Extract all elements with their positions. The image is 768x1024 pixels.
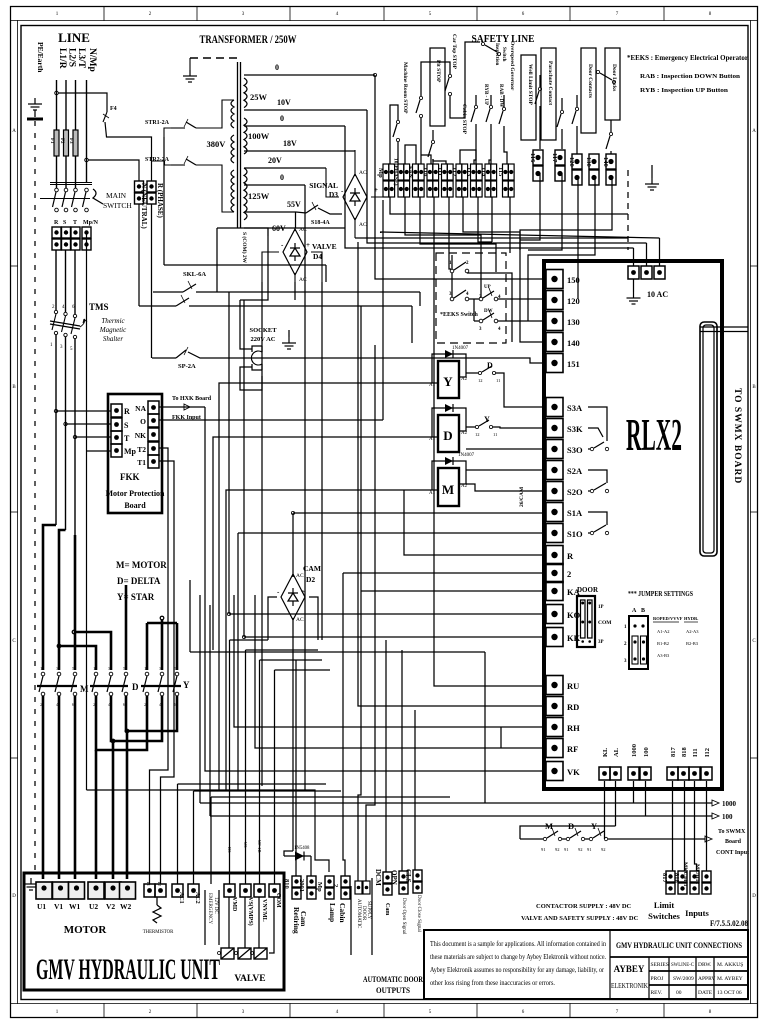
terminal S2O: [546, 482, 563, 501]
wire KA: [361, 590, 544, 592]
svg-text:I11: I11: [692, 748, 699, 757]
safety chain wires: [390, 105, 398, 164]
fuse F3: [73, 130, 78, 156]
svg-text:11: 11: [496, 378, 500, 383]
svg-text:*EEKS Switch: *EEKS Switch: [440, 312, 479, 318]
bridge rectifier D3: [343, 174, 367, 220]
svg-text:Pit STOP: Pit STOP: [435, 60, 441, 83]
wire bus 265: [164, 264, 326, 266]
svg-text:A: A: [752, 129, 756, 134]
parachute switch: [557, 98, 564, 148]
svg-text:KO: KO: [567, 610, 581, 620]
svg-text:M: M: [80, 684, 89, 694]
svg-text:AYBEY: AYBEY: [614, 964, 645, 974]
svg-text:Thermic: Thermic: [101, 317, 125, 325]
main switch actuating bar: [40, 198, 90, 200]
node on N/Mp feeding N terminal: [85, 158, 89, 162]
wire 110 column to RU: [434, 197, 544, 686]
svg-text:A: A: [12, 129, 16, 134]
svg-text:To HXK Board: To HXK Board: [172, 396, 212, 402]
valve col VS: [245, 650, 247, 884]
svg-text:Door Open Signal: Door Open Signal: [401, 898, 406, 935]
socket symbol: [251, 351, 262, 365]
PE dashed earth wire down: [34, 121, 36, 873]
svg-text:91: 91: [541, 847, 546, 852]
chain wire to arrow: [608, 838, 705, 840]
terminal 2: [546, 564, 563, 583]
svg-text:THERMISTOR: THERMISTOR: [143, 930, 174, 935]
parachute box: [541, 48, 556, 140]
terminal S1O: [546, 524, 563, 543]
wires from connector top: [700, 326, 748, 328]
svg-text:CLS: CLS: [404, 869, 412, 883]
wire stub 10AC right: [380, 232, 660, 238]
svg-text:Magnetic: Magnetic: [99, 326, 127, 334]
svg-text:1P: 1P: [598, 605, 604, 610]
thermistor resistor: [153, 905, 161, 923]
GMV ground: [24, 878, 38, 890]
svg-text:STR2-2A: STR2-2A: [145, 157, 170, 163]
wire RF: [255, 595, 544, 748]
wire bus 652: [190, 651, 485, 653]
svg-text:0: 0: [275, 63, 279, 72]
wires from eeks to rlx: [498, 298, 544, 300]
terminal RF: [546, 739, 563, 758]
terminal pair T: [71, 227, 80, 250]
svg-text:SW/2009: SW/2009: [673, 976, 694, 982]
10 AC terminal boxes: [628, 266, 639, 279]
wire KO: [229, 613, 544, 615]
svg-text:VS(VMPS): VS(VMPS): [247, 897, 254, 926]
svg-text:AC2: AC2: [194, 892, 200, 904]
disclaimer divider: [609, 930, 611, 999]
terminal 151: [546, 354, 563, 373]
table grid: [648, 957, 650, 999]
terminal 150: [546, 270, 563, 289]
svg-text:818: 818: [681, 747, 688, 758]
svg-text:AC: AC: [359, 222, 367, 228]
svg-text:S1O: S1O: [567, 529, 583, 539]
svg-text:91: 91: [587, 847, 592, 852]
wire D A1 left: [213, 437, 417, 650]
svg-text:92: 92: [578, 847, 583, 852]
svg-text:D: D: [443, 428, 452, 443]
wire S1O long: [238, 532, 544, 534]
elbow RF: [500, 727, 502, 748]
svg-text:Y: Y: [443, 374, 453, 389]
svg-text:VK: VK: [567, 767, 580, 777]
automatic door supply bracket: [350, 886, 352, 955]
svg-text:Inspection: Inspection: [494, 43, 499, 65]
svg-text:A: A: [632, 608, 637, 614]
terminal KK: [546, 628, 563, 647]
svg-text:S1A: S1A: [567, 508, 583, 518]
vertical 238: [237, 533, 239, 790]
N (NEUTRAL) terminal pair: [135, 181, 144, 204]
wire 0c column down: [304, 253, 306, 790]
svg-text:HYDR.: HYDR.: [684, 616, 698, 621]
svg-text:2: 2: [567, 569, 571, 579]
svg-text:O: O: [140, 417, 146, 426]
svg-text:PROJ: PROJ: [651, 976, 665, 982]
terminal pair Mp: [82, 227, 91, 250]
svg-text:18V: 18V: [283, 139, 297, 148]
svg-text:+: +: [306, 241, 310, 249]
wire RH: [234, 595, 544, 727]
door supply terminals: [355, 881, 362, 894]
vertical 190: [189, 580, 191, 652]
svg-text:SUPPLY: SUPPLY: [366, 901, 371, 920]
svg-text:AC: AC: [359, 170, 367, 176]
wires from RLX2 bottom to limits: [604, 781, 606, 839]
wire 10V to 10AC mid: [367, 110, 647, 243]
door contacts box: [581, 48, 596, 133]
switch cabin stop: [428, 130, 435, 164]
door locks switch upper: [596, 70, 615, 83]
svg-text:F1: F1: [49, 138, 54, 144]
wire 1000 with arrow: [200, 802, 712, 804]
emergency bracket: [204, 890, 206, 945]
CLS column: [414, 710, 416, 870]
terminal 140: [546, 333, 563, 352]
svg-text:B2-B3: B2-B3: [686, 641, 699, 646]
core: [237, 62, 239, 228]
terminal R: [546, 546, 563, 565]
wire RD top ext: [357, 242, 359, 430]
svg-text:VMD: VMD: [231, 897, 237, 912]
relay box M: [438, 468, 459, 506]
svg-text:D: D: [752, 894, 756, 899]
svg-text:Board: Board: [124, 501, 146, 510]
well limit switch: [535, 75, 542, 148]
svg-text:3P: 3P: [598, 640, 604, 645]
wire 0c down: [304, 185, 306, 253]
svg-text:91: 91: [564, 847, 569, 852]
svg-text:OPN: OPN: [390, 870, 398, 885]
fuse F1: [54, 130, 59, 156]
overspeed governor switch: [499, 95, 506, 145]
svg-text:S: S: [124, 421, 129, 430]
car top stop wires: [421, 62, 450, 84]
svg-text:Cabin STOP: Cabin STOP: [461, 104, 467, 135]
vertical KA column: [358, 591, 361, 881]
svg-text:SWLINE-C: SWLINE-C: [671, 962, 694, 968]
dashed link to ground: [190, 57, 240, 59]
terminal S2A: [546, 461, 563, 480]
wire 130 to EEKS: [528, 178, 595, 321]
svg-text:Mp: Mp: [124, 447, 137, 456]
terminal VS(VMPS): [240, 884, 251, 897]
svg-text:2: 2: [332, 884, 339, 887]
svg-text:L2/S: L2/S: [67, 48, 77, 67]
svg-text:S2O: S2O: [567, 487, 583, 497]
svg-text:VALVE AND SAFETY SUPPLY : 48V: VALVE AND SAFETY SUPPLY : 48V DC: [521, 915, 639, 922]
svg-text:TRANSFORMER / 250W: TRANSFORMER / 250W: [200, 32, 297, 46]
dashed enclosure: [436, 253, 506, 343]
main switch bracket: [93, 189, 103, 204]
svg-text:0: 0: [280, 173, 284, 182]
svg-text:STR1-2A: STR1-2A: [145, 120, 170, 126]
svg-text:DOOR: DOOR: [361, 906, 366, 921]
svg-text:KL: KL: [602, 747, 609, 757]
svg-text:SP-2A: SP-2A: [178, 363, 196, 370]
relay box D: [438, 415, 459, 452]
svg-text:VALVE: VALVE: [312, 242, 337, 251]
svg-text:100: 100: [643, 747, 650, 757]
valve link3: [260, 659, 323, 661]
svg-text:F2: F2: [59, 138, 64, 144]
svg-text:Limit: Limit: [654, 900, 674, 910]
wire S2O from M aux: [466, 484, 544, 491]
terminal S3A: [546, 398, 563, 417]
svg-text:L3/T: L3/T: [76, 48, 86, 69]
left ruler line: [17, 21, 19, 1004]
svg-text:U2: U2: [89, 902, 98, 911]
svg-text:RF: RF: [567, 744, 578, 754]
terminal AC1: [172, 884, 183, 897]
svg-text:1: 1: [93, 666, 95, 671]
wires below TMS: [55, 335, 57, 525]
terminal pair R: [52, 227, 61, 250]
terminal RD: [546, 697, 563, 716]
svg-text:13 OCT 06: 13 OCT 06: [717, 990, 742, 996]
valve solenoid 1: [221, 948, 234, 959]
safety ground: [651, 165, 653, 178]
M feed wires right: [466, 469, 544, 471]
svg-text:2001: 2001: [298, 879, 305, 892]
svg-text:SKL-6A: SKL-6A: [183, 271, 206, 278]
right ruler line: [750, 21, 752, 1004]
svg-text:F/7.5.5.02.08: F/7.5.5.02.08: [710, 919, 748, 928]
terminal S: [111, 418, 122, 431]
bottom ruler line: [11, 1003, 758, 1005]
svg-text:AC: AC: [299, 277, 307, 283]
svg-text:RAB - DW: RAB - DW: [498, 84, 503, 107]
secondary winding: [244, 78, 247, 220]
svg-text:Well Limit STOP: Well Limit STOP: [527, 64, 533, 105]
svg-text:S2A: S2A: [567, 466, 583, 476]
wire Y A1 left: [219, 383, 417, 790]
transformer ground: [183, 70, 197, 82]
svg-text:PE/Earth: PE/Earth: [36, 42, 45, 73]
svg-text:DOOR: DOOR: [577, 586, 599, 594]
svg-text:RYB : Inspection UP Button: RYB : Inspection UP Button: [640, 87, 728, 94]
svg-text:other loss rising from these i: other loss rising from these inaccuracie…: [430, 979, 555, 987]
wire L1/R: [56, 80, 58, 130]
DCM column: [385, 640, 387, 872]
svg-text:L1/R: L1/R: [57, 48, 67, 69]
column ticks top: [104, 7, 664, 21]
D2 wires: [292, 513, 294, 577]
D out crossovers: [96, 696, 147, 750]
motor terminal W2: [120, 882, 136, 899]
svg-text:N/Mp: N/Mp: [87, 48, 97, 72]
wire NA extend: [166, 406, 205, 408]
svg-text:10 AC: 10 AC: [647, 290, 668, 299]
R (PHASE) terminal pair: [147, 181, 156, 204]
svg-text:Cabin: Cabin: [338, 903, 347, 923]
wire safety fan down: [420, 197, 496, 272]
motor wires U2 V2 W2: [95, 750, 98, 879]
terminal KA: [546, 582, 563, 601]
svg-text:Shalter: Shalter: [103, 335, 123, 343]
motor terminal V2: [105, 882, 121, 899]
svg-text:RAB : Inspection DOWN Button: RAB : Inspection DOWN Button: [640, 73, 740, 80]
svg-text:D: D: [132, 682, 139, 692]
terminal 120: [546, 291, 563, 310]
svg-text:COM: COM: [275, 893, 281, 908]
svg-text:SAFETY LINE: SAFETY LINE: [472, 33, 535, 45]
valve internal wires: [228, 897, 230, 948]
svg-text:12: 12: [475, 432, 480, 437]
svg-text:D: D: [12, 894, 16, 899]
PE ground symbol: [28, 98, 42, 110]
primary wires: [196, 100, 234, 128]
wire 55V to D4: [295, 212, 297, 228]
svg-text:D= DELTA: D= DELTA: [117, 576, 161, 586]
TMS breaker contacts: [52, 250, 77, 339]
100 vertical left: [209, 605, 211, 816]
Y box wires: [432, 354, 438, 383]
svg-text:V2: V2: [106, 902, 115, 911]
terminal VK: [546, 762, 563, 781]
svg-text:F4: F4: [110, 106, 117, 112]
valve col COM: [274, 670, 276, 884]
svg-text:11: 11: [493, 432, 497, 437]
svg-text:RU: RU: [567, 681, 579, 691]
svg-text:AL: AL: [613, 747, 620, 757]
motor terminal U1: [36, 882, 52, 899]
svg-text:A2: A2: [461, 484, 468, 489]
svg-text:Overspeed Governor: Overspeed Governor: [509, 41, 515, 91]
svg-text:S (COM) 2W: S (COM) 2W: [241, 232, 248, 264]
S3 contact link: [588, 407, 609, 451]
svg-text:A2: A2: [461, 377, 468, 382]
door supply col2: [366, 640, 375, 881]
svg-text:T1: T1: [137, 458, 146, 467]
svg-text:NK: NK: [135, 431, 146, 440]
svg-text:AUTOMATIC: AUTOMATIC: [356, 899, 361, 929]
wire KK: [244, 636, 544, 638]
svg-text:1: 1: [40, 666, 42, 671]
wire RD: [358, 430, 544, 706]
board outline U1: [544, 261, 722, 789]
svg-text:A3-B3: A3-B3: [657, 653, 670, 658]
row letters: [12, 129, 756, 899]
svg-text:D2: D2: [306, 575, 315, 584]
dashed stub: [627, 170, 629, 250]
Mp wire down page: [86, 231, 88, 790]
RYB switch: [471, 95, 478, 164]
valve link2: [246, 649, 319, 651]
terminal NK: [148, 428, 159, 441]
wire safety 10phase down: [405, 197, 481, 297]
door contacts switch: [572, 95, 579, 153]
svg-text:20V: 20V: [268, 156, 282, 165]
wire R phase down to SP-2A: [151, 204, 153, 358]
svg-text:Mp/N: Mp/N: [83, 220, 99, 226]
svg-text:Door Locks: Door Locks: [611, 64, 617, 91]
wire 0b to 10AC left: [345, 126, 634, 248]
svg-text:S3A: S3A: [567, 403, 583, 413]
wire N column down: [138, 204, 140, 306]
FKK feed taps: [56, 410, 111, 412]
svg-text:T2: T2: [137, 445, 146, 454]
svg-text:T: T: [73, 220, 77, 226]
wire 2: [343, 572, 544, 574]
svg-text:Car Top STOP: Car Top STOP: [451, 34, 457, 70]
svg-text:S18-4A: S18-4A: [311, 220, 330, 226]
svg-text:NA: NA: [135, 404, 146, 413]
svg-text:COM: COM: [598, 620, 612, 626]
svg-text:Y= STAR: Y= STAR: [117, 592, 155, 602]
terminal RU: [546, 676, 563, 695]
terminal T2: [148, 442, 159, 455]
svg-text:OUTPUTS: OUTPUTS: [376, 985, 410, 995]
svg-text:M. AYBEY: M. AYBEY: [717, 976, 743, 982]
svg-text:SIGNAL: SIGNAL: [309, 181, 338, 190]
svg-text:*** JUMPER SETTINGS: *** JUMPER SETTINGS: [628, 589, 693, 598]
svg-text:AC: AC: [296, 617, 304, 623]
M box wires: [432, 461, 438, 490]
svg-text:55V: 55V: [287, 200, 301, 209]
T2 wire down: [161, 600, 175, 884]
svg-text:12V DC: 12V DC: [213, 897, 218, 914]
AC1 wire: [177, 784, 179, 884]
DOOR connector: [577, 596, 595, 647]
emergency wire: [210, 797, 212, 884]
T1 wire down: [150, 590, 169, 884]
title block outline: [424, 930, 748, 999]
valve link1: [230, 639, 269, 641]
wire to F4: [58, 93, 107, 112]
svg-text:RD: RD: [567, 702, 579, 712]
wire doorsupply top ext: [374, 345, 376, 640]
vertical 2 column: [343, 573, 345, 876]
svg-text:R: R: [124, 407, 130, 416]
star group feed: [160, 616, 164, 620]
svg-text:Cam: Cam: [384, 903, 390, 915]
motor terminal W1: [69, 882, 85, 899]
D box wires: [432, 408, 438, 437]
FKK board outline: [108, 394, 162, 513]
main switch contacts: [53, 188, 89, 212]
svg-text:Y: Y: [183, 680, 190, 690]
terminal S1A: [546, 503, 563, 522]
svg-text:SWITCH: SWITCH: [103, 201, 132, 210]
svg-text:U1: U1: [37, 902, 46, 911]
svg-text:W2: W2: [120, 902, 132, 911]
wire to N(NEUTRAL) terminal: [88, 160, 139, 181]
valve link4: [275, 669, 331, 671]
GMV box outline: [24, 873, 284, 990]
terminal pair S: [62, 227, 71, 250]
svg-text:KK: KK: [567, 633, 581, 643]
terminal NA: [148, 401, 159, 414]
svg-text:M= MOTOR: M= MOTOR: [116, 560, 167, 570]
svg-text:DW: DW: [484, 309, 493, 314]
svg-text:26/CAM: 26/CAM: [519, 486, 525, 507]
wires fuses to main switch: [56, 156, 58, 188]
svg-text:A2-A3: A2-A3: [686, 629, 699, 634]
810 column: [295, 660, 297, 876]
wire safety Mp down: [390, 197, 628, 214]
svg-text:92: 92: [601, 847, 606, 852]
terminal S3K: [546, 419, 563, 438]
wire bus 228: [217, 227, 345, 229]
D2 to diode elbow: [284, 851, 293, 856]
vertical KO column: [228, 300, 230, 614]
